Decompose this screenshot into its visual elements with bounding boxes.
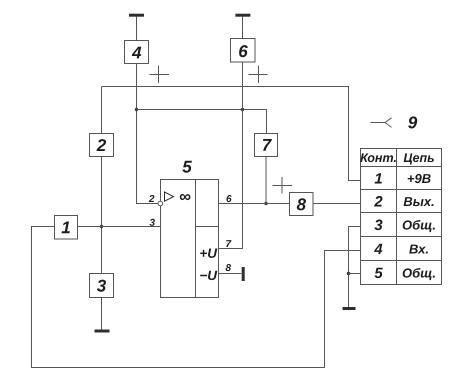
wire block1 to op-amp pin3 (78, 226, 161, 228)
wire block1 left loop to connector row4 (32, 227, 361, 368)
op-amp -U label (200, 271, 217, 280)
connector symbol X9 (371, 118, 392, 128)
block 7 box (255, 134, 278, 157)
node junction block7/pin6 net (264, 202, 267, 205)
op-amp inversion circle pin2 (158, 201, 163, 206)
pin label 2 (149, 195, 155, 202)
label block 4 (132, 47, 141, 59)
polarity cross near block 8 (273, 177, 293, 194)
node junction row5 branch (347, 272, 350, 275)
label block 5 (182, 161, 192, 173)
wire block7 down to pin6 net (265, 157, 267, 204)
net label +9V (408, 174, 431, 183)
net label Vyh (404, 197, 434, 206)
block 3 box (90, 274, 114, 298)
wire block2 to block3 (101, 157, 103, 274)
wire block3 to ground (101, 298, 103, 330)
table row line header (361, 166, 442, 168)
net label Obsh 3 (403, 220, 435, 232)
connector table frame (361, 149, 442, 285)
wire from terminal to block 4 (136, 17, 138, 41)
block 4 box (125, 41, 149, 64)
pin label 7 (226, 240, 231, 247)
table header Цепь (404, 153, 434, 164)
wire horizontal bus y109 to block7 (137, 110, 267, 134)
net label Obsh 5 (403, 268, 435, 280)
wire terminal to block 6 (242, 17, 244, 39)
terminal bar at pin 8 (242, 267, 245, 281)
block 8 box (290, 193, 314, 216)
op-amp gain symbol (180, 194, 191, 200)
node junction pin3 net (100, 225, 103, 228)
label block 1 (62, 222, 70, 234)
table row line 4 (361, 260, 442, 262)
table pin 5 (375, 268, 383, 278)
table pin 1 (375, 173, 382, 183)
op-amp +U label (200, 249, 217, 258)
table column divider (396, 149, 398, 285)
table pin 3 (374, 220, 382, 231)
label block 2 (97, 139, 107, 151)
label block 3 (97, 280, 106, 292)
block 6 box (231, 39, 256, 63)
node junction block6/bus (241, 108, 244, 111)
op-amp triangle symbol (165, 192, 174, 201)
table pin 2 (374, 196, 382, 207)
terminal bar above block 4 (129, 14, 144, 17)
net label Vh (409, 245, 428, 254)
pin label 6 (227, 195, 232, 202)
terminal bar above block 6 (235, 14, 250, 17)
polarity cross near block 6 (249, 66, 268, 84)
op-amp divider horizontal (196, 226, 219, 228)
table header Конт (360, 153, 396, 162)
ground bar below block 3 (95, 330, 110, 333)
wire block8 to connector row2 (313, 203, 361, 205)
wire block6 down to op-amp pin7 (219, 62, 243, 249)
label block 6 (239, 45, 248, 57)
wire pin8 to terminal (219, 273, 242, 275)
wire left column top (101, 87, 103, 134)
wire block4 down to op-amp pin2 (137, 64, 159, 204)
label block 7 (263, 139, 272, 151)
op-amp U1 block 5 outline (161, 180, 219, 298)
pin label 3 (150, 219, 155, 226)
wire +9V rail top (102, 87, 361, 181)
table row line 3 (361, 236, 442, 238)
table pin 4 (374, 244, 382, 254)
table row line 1 (361, 189, 442, 191)
pin label 8 (226, 264, 231, 271)
node junction block4/bus (135, 108, 138, 111)
label connector 9 (408, 116, 417, 128)
table row line 2 (361, 212, 442, 214)
ground bar right (343, 307, 356, 310)
op-amp divider vertical (195, 180, 197, 298)
wire row5 branch (349, 273, 361, 275)
polarity cross near block 4 (150, 66, 170, 84)
label block 8 (297, 198, 306, 210)
wire pin6 to block 8 (219, 203, 290, 205)
block 2 box (90, 134, 114, 157)
wire connector row3 to ground bracket (349, 227, 361, 308)
block 1 box (55, 216, 78, 240)
